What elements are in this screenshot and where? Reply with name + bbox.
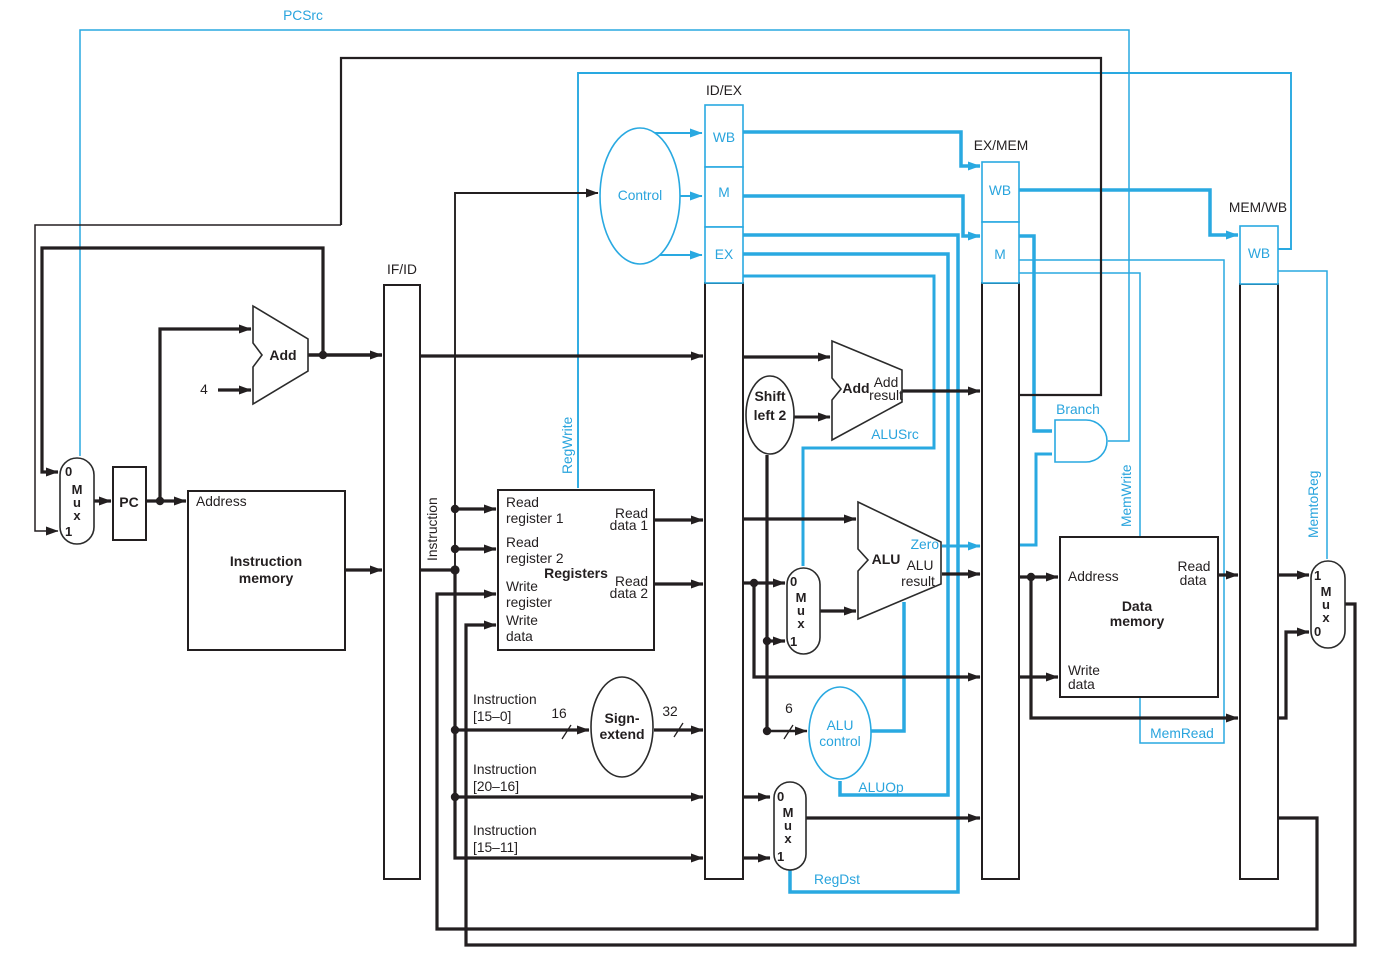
svg-text:Write: Write (506, 613, 538, 628)
svg-text:Read: Read (506, 495, 539, 510)
svg-text:0: 0 (65, 464, 72, 479)
svg-text:Address: Address (196, 494, 247, 509)
svg-text:1: 1 (777, 849, 784, 864)
svg-text:Instruction: Instruction (230, 553, 302, 569)
svg-text:Branch: Branch (1056, 402, 1100, 417)
svg-text:MEM/WB: MEM/WB (1229, 200, 1287, 215)
svg-text:16: 16 (551, 706, 567, 721)
svg-text:memory: memory (1110, 613, 1165, 629)
svg-text:memory: memory (239, 570, 294, 586)
svg-text:1: 1 (65, 524, 72, 539)
svg-text:Data: Data (1122, 598, 1153, 614)
svg-text:EX: EX (715, 247, 733, 262)
svg-text:PC: PC (119, 494, 138, 510)
svg-text:1: 1 (790, 634, 797, 649)
svg-text:ALUSrc: ALUSrc (871, 427, 919, 442)
svg-text:ALU: ALU (827, 718, 854, 733)
svg-text:WB: WB (989, 183, 1011, 198)
svg-text:0: 0 (790, 574, 797, 589)
svg-text:Zero: Zero (911, 537, 940, 552)
svg-text:register: register (506, 595, 552, 610)
svg-text:MemRead: MemRead (1150, 726, 1214, 741)
svg-text:x: x (1322, 610, 1330, 625)
svg-text:6: 6 (785, 701, 793, 716)
svg-text:MemtoReg: MemtoReg (1306, 471, 1321, 538)
svg-text:ID/EX: ID/EX (706, 83, 742, 98)
svg-text:1: 1 (1314, 568, 1321, 583)
svg-text:data: data (506, 629, 533, 644)
svg-text:data 2: data 2 (610, 586, 648, 601)
svg-text:x: x (797, 616, 805, 631)
svg-text:Instruction: Instruction (473, 692, 537, 707)
svg-text:left 2: left 2 (754, 407, 787, 423)
svg-text:4: 4 (200, 382, 208, 397)
svg-text:Registers: Registers (544, 565, 608, 581)
svg-text:data: data (1068, 677, 1095, 692)
svg-text:[20–16]: [20–16] (473, 779, 519, 794)
svg-text:register 2: register 2 (506, 551, 564, 566)
svg-text:data: data (1180, 573, 1207, 588)
svg-text:M: M (718, 185, 730, 200)
svg-text:PCSrc: PCSrc (283, 8, 323, 23)
svg-text:Shift: Shift (754, 388, 785, 404)
svg-text:WB: WB (1248, 246, 1270, 261)
svg-text:Control: Control (618, 188, 662, 203)
svg-text:data 1: data 1 (610, 518, 648, 533)
svg-text:Instruction: Instruction (473, 762, 537, 777)
svg-text:control: control (819, 734, 860, 749)
svg-text:Address: Address (1068, 569, 1119, 584)
svg-text:[15–0]: [15–0] (473, 709, 511, 724)
svg-text:result: result (869, 388, 903, 403)
svg-text:Sign-: Sign- (605, 710, 640, 726)
svg-text:IF/ID: IF/ID (387, 262, 417, 277)
svg-text:ALUOp: ALUOp (858, 780, 904, 795)
svg-text:Add: Add (269, 347, 296, 363)
svg-text:result: result (901, 574, 935, 589)
svg-text:EX/MEM: EX/MEM (974, 138, 1028, 153)
svg-text:0: 0 (777, 789, 784, 804)
svg-text:ALU: ALU (872, 551, 901, 567)
svg-text:Write: Write (1068, 663, 1100, 678)
svg-text:Read: Read (506, 535, 539, 550)
svg-text:x: x (784, 831, 792, 846)
svg-text:Add: Add (842, 380, 869, 396)
svg-text:Instruction: Instruction (473, 823, 537, 838)
svg-text:MemWrite: MemWrite (1119, 464, 1134, 527)
svg-text:Read: Read (1178, 559, 1211, 574)
svg-text:Write: Write (506, 579, 538, 594)
svg-text:extend: extend (599, 726, 644, 742)
svg-text:RegDst: RegDst (814, 872, 860, 887)
svg-text:register 1: register 1 (506, 511, 564, 526)
svg-text:RegWrite: RegWrite (560, 416, 575, 474)
svg-text:32: 32 (662, 704, 677, 719)
svg-text:ALU: ALU (907, 558, 934, 573)
svg-text:WB: WB (713, 130, 735, 145)
svg-text:Instruction: Instruction (425, 497, 440, 561)
svg-text:0: 0 (1314, 624, 1321, 639)
svg-text:M: M (994, 247, 1006, 262)
svg-text:[15–11]: [15–11] (473, 840, 518, 855)
svg-text:x: x (73, 508, 81, 523)
